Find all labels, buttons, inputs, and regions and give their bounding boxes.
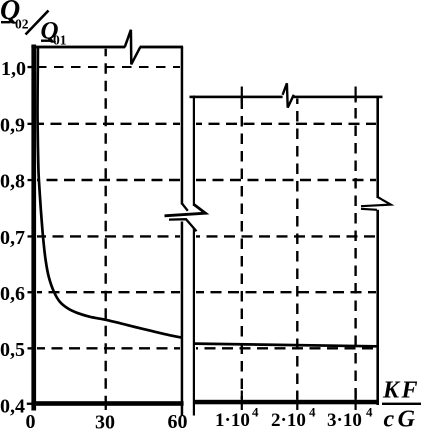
svg-text:1·10: 1·10 xyxy=(215,410,250,429)
svg-text:4: 4 xyxy=(309,405,316,420)
right panel top border (left of break) xyxy=(190,96,283,99)
dashed gridline y=0.7 right panel xyxy=(196,235,376,237)
break symbol on left panel top border xyxy=(125,30,141,65)
left panel top border (right of break) xyxy=(140,46,184,49)
svg-text:0,9: 0,9 xyxy=(0,115,25,137)
y tick 0.4 xyxy=(27,403,36,405)
right panel right border (above break) xyxy=(376,96,379,198)
axis quantity label KF/cG xyxy=(382,378,421,429)
dashed gridline y=0.6 right panel xyxy=(196,291,376,293)
left panel right border (below break) xyxy=(181,222,184,416)
svg-text:02: 02 xyxy=(15,17,29,32)
svg-text:0,8: 0,8 xyxy=(0,171,25,193)
dashed gridline y=0.5 left panel xyxy=(37,347,180,349)
svg-text:3·10: 3·10 xyxy=(327,410,362,429)
y tick 0.5 xyxy=(28,347,37,349)
break symbol on right panel right border xyxy=(361,197,391,210)
break symbol on right panel top border xyxy=(283,83,294,107)
svg-text:60: 60 xyxy=(168,411,188,429)
dashed gridline y=0.8 right panel xyxy=(196,179,376,181)
x tick at 30 (below axis) xyxy=(105,400,107,410)
x label 1e4 xyxy=(215,405,259,429)
x label 2e4 xyxy=(271,405,316,429)
y tick 0.8 xyxy=(28,179,37,181)
dashed vertical gridline x=3e4 right panel xyxy=(354,99,356,400)
left panel top border (left of break) xyxy=(31,46,125,49)
bottom axis of left panel (thick) xyxy=(31,401,183,406)
svg-text:4: 4 xyxy=(252,405,259,420)
svg-text:0: 0 xyxy=(26,411,36,429)
svg-text:0,6: 0,6 xyxy=(0,283,25,305)
dashed gridline y=1.0 left panel xyxy=(37,66,180,68)
dashed gridline y=0.9 left panel xyxy=(37,123,180,125)
dashed vertical gridline x=2e4 right panel xyxy=(296,99,298,400)
svg-text:1,0: 1,0 xyxy=(1,58,26,80)
dashed gridline y=0.9 right panel xyxy=(196,123,376,125)
svg-text:30: 30 xyxy=(95,412,115,429)
top tick at 3e4 (crossing right panel top border) xyxy=(355,87,357,103)
svg-text:4: 4 xyxy=(366,405,373,420)
left panel right border (above break) xyxy=(181,47,184,205)
x tick at 3e4 (crossing bottom axis) xyxy=(355,391,357,411)
bottom axis of right panel (thick) xyxy=(193,400,379,405)
y tick 1.0 xyxy=(28,66,37,68)
svg-text:0,4: 0,4 xyxy=(0,396,25,418)
right panel left border (above break) xyxy=(193,96,195,207)
y tick 0.6 xyxy=(28,291,37,293)
svg-text:2·10: 2·10 xyxy=(271,410,306,429)
svg-text:cG: cG xyxy=(384,407,419,429)
break symbol across the double border between panels xyxy=(165,204,206,232)
curve continuation in right panel xyxy=(195,344,377,347)
svg-text:01: 01 xyxy=(53,33,67,48)
right panel top border (right of break) xyxy=(294,96,383,99)
dashed gridline y=0.6 left panel xyxy=(37,291,180,293)
axis label Q02/Q01 top-left xyxy=(0,0,67,48)
x tick at 1e4 (crossing bottom axis) xyxy=(241,391,243,411)
right panel right border (below break) xyxy=(376,210,379,405)
x tick at 2e4 (crossing bottom axis) xyxy=(296,391,298,411)
dashed vertical gridline x=30 left panel xyxy=(104,49,106,400)
svg-text:KF: KF xyxy=(382,378,420,404)
svg-text:0,5: 0,5 xyxy=(0,339,25,361)
dashed vertical gridline x=1e4 right panel xyxy=(241,99,243,400)
right panel left border (below break) xyxy=(193,228,195,416)
dashed gridline y=0.7 left panel xyxy=(37,235,180,237)
svg-text:0,7: 0,7 xyxy=(0,227,25,249)
curve in left panel xyxy=(38,48,182,338)
dashed gridline y=0.5 right panel xyxy=(196,347,376,349)
y tick 0.9 xyxy=(28,123,37,125)
dashed gridline y=0.8 left panel xyxy=(37,179,180,181)
top tick at 1e4 (crossing right panel top border) xyxy=(241,87,243,103)
y tick 0.7 xyxy=(28,235,37,237)
x label 3e4 xyxy=(327,405,373,429)
y axis (left vertical axis, thick) xyxy=(31,45,36,411)
